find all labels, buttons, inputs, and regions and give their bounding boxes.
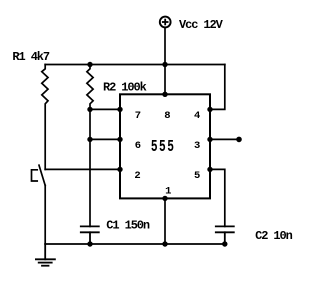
svg-text:3: 3 <box>194 140 200 152</box>
wire node to pin 6 <box>90 138 120 140</box>
junction Vcc rail <box>162 62 167 67</box>
svg-text:555: 555 <box>151 138 175 157</box>
wire top rail Vcc <box>45 64 225 66</box>
capacitor C1 <box>81 226 99 244</box>
junction pin 3 <box>207 137 212 142</box>
svg-text:8: 8 <box>164 110 170 122</box>
junction pin 7 <box>117 107 122 112</box>
op IC U1 555 box <box>120 94 210 198</box>
wire pin 4 to top rail <box>210 65 225 110</box>
junction C2 ground <box>222 241 227 246</box>
junction pin 5 <box>207 167 212 172</box>
wire pin 1 to ground rail <box>164 198 166 244</box>
svg-text:C1 150n: C1 150n <box>106 219 150 233</box>
junction pin 8 <box>162 92 167 97</box>
svg-text:4: 4 <box>194 110 200 122</box>
junction pin 1 <box>162 196 167 201</box>
svg-text:R1 4k7: R1 4k7 <box>12 50 50 64</box>
junction R2 top <box>87 62 92 67</box>
ground symbol <box>36 244 55 266</box>
resistor R1 <box>42 65 48 170</box>
junction C1 ground <box>87 241 92 246</box>
svg-text:1: 1 <box>165 185 171 197</box>
wire pin 5 to C2 <box>210 169 225 226</box>
wire Vcc stem to pin 8 <box>164 29 166 95</box>
switch S1 button cap <box>32 170 38 181</box>
resistor R2 <box>87 65 93 227</box>
wire ground rail <box>45 243 225 245</box>
junction pin 4 <box>207 107 212 112</box>
svg-text:C2 10n: C2 10n <box>255 229 293 243</box>
svg-text:6: 6 <box>135 140 141 152</box>
wire pin 3 output <box>210 138 239 140</box>
junction node pin 6 <box>87 137 92 142</box>
svg-text:2: 2 <box>134 170 140 182</box>
terminal output node <box>236 137 242 143</box>
junction pin 2 <box>117 167 122 172</box>
capacitor C2 <box>216 226 234 244</box>
junction pin 1 ground <box>162 241 167 246</box>
wire switch to pin 2 <box>45 168 120 170</box>
svg-text:R2 100k: R2 100k <box>103 81 147 95</box>
wire node to pin 7 <box>90 108 120 110</box>
svg-text:7: 7 <box>135 110 141 122</box>
svg-text:Vcc 12V: Vcc 12V <box>179 18 224 32</box>
switch S1 lever <box>39 165 45 185</box>
power symbol Vcc <box>160 17 171 28</box>
wire switch to ground rail <box>44 185 46 244</box>
junction R2 bottom <box>87 107 92 112</box>
svg-text:5: 5 <box>194 170 200 182</box>
junction pin 6 <box>117 137 122 142</box>
